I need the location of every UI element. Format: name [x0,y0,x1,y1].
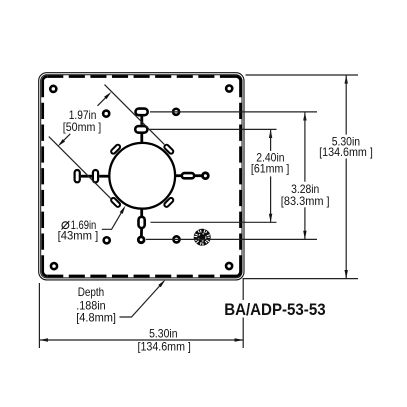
stem bottom slot [140,209,143,217]
plate inner chamfer edge [41,75,242,278]
corner hole top-right [226,85,232,91]
left slot outer [75,170,80,182]
plate hidden rear box (dashed) [43,77,241,277]
bottom extension line right (x=243.2) [242,278,244,300]
stem top slots [140,117,143,125]
plate outer edge [39,73,244,280]
central circle Ø1.69in [109,143,175,209]
diameter symbol of Ø1.69in [62,221,70,230]
dimension 5.30in horizontal (bottom) [39,338,48,341]
diagonal slot top-right [163,144,174,155]
diagonal slot bottom-left [110,197,121,208]
right small circle [203,173,209,179]
corner hole top-left [50,86,56,92]
bottom extension line left (x=39.4) [38,283,40,348]
dimension 1.97in/50mm line lower segment + arrow [60,134,70,144]
dimension 1.97in/50mm line upper segment + arrow [98,94,110,106]
stem right slot [175,174,181,177]
dimension 2.40in vertical [269,129,272,138]
diagonal slot bottom-right [163,197,174,208]
bottom small circle [138,237,144,243]
extension line from bottom hole (y=239.4) [146,238,317,240]
top slot upper [136,109,148,116]
extension line from upper top slot (y=111.9) [150,111,317,113]
svg-text:[134.6mm ]: [134.6mm ] [319,145,373,159]
knurled adjustment screw [194,229,211,246]
diagonal slot top-left [110,144,121,155]
svg-text:BA/ADP-53-53: BA/ADP-53-53 [224,300,325,319]
depth leader [120,281,164,317]
leader Ø1.69in [102,208,124,230]
extension line from bottom slot (y=222.3) [151,221,277,223]
top slot lower [135,126,147,133]
centreline B through bottom-left slot (45°) [49,137,111,199]
hole on lower extension line [173,236,179,242]
extension line bottom right (y=278.6) [243,278,358,280]
svg-text:[43mm ]: [43mm ] [58,228,99,242]
corner hole bottom-left [51,263,57,269]
hole on upper extension line [173,109,179,115]
centreline A through top-right slot (45°) [105,85,165,145]
hole upper-left of centre [103,111,109,117]
svg-text:[4.8mm]: [4.8mm] [76,310,116,324]
svg-text:[83.3mm ]: [83.3mm ] [281,194,330,208]
stems left slots [81,175,93,178]
svg-text:Depth: Depth [78,285,105,299]
svg-text:[61mm ]: [61mm ] [251,162,289,176]
bottom slot [139,217,145,228]
extension line from lower top slot (y=129.4) [150,128,277,130]
svg-text:5.30in: 5.30in [149,327,177,341]
dimension 3.28in vertical [303,112,306,121]
corner hole bottom-right [226,263,232,269]
svg-text:[50mm ]: [50mm ] [63,120,102,134]
left slot inner [93,170,98,182]
svg-text:[134.6mm ]: [134.6mm ] [138,340,191,354]
right slot [182,173,194,178]
hole lower-left of centre [104,237,110,243]
dimension 5.30in vertical (right) [345,75,348,84]
extension line top (y=75) [246,74,359,76]
